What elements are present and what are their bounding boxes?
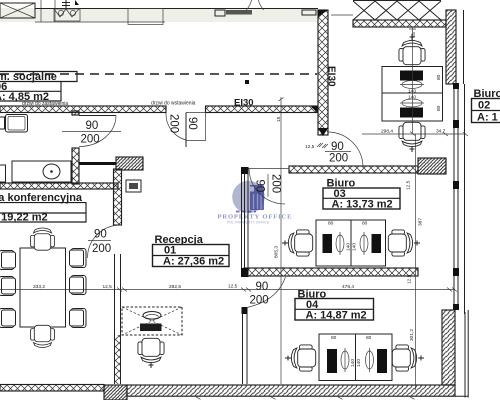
svg-text:EI30: EI30: [234, 98, 254, 109]
svg-text:80: 80: [436, 105, 442, 111]
svg-text:301,2: 301,2: [409, 329, 415, 341]
svg-text:298,4: 298,4: [381, 129, 393, 135]
svg-text:140: 140: [352, 243, 358, 251]
svg-text:200: 200: [168, 114, 180, 133]
svg-text:A: 14,87 m2: A: 14,87 m2: [306, 310, 367, 322]
svg-text:12,5: 12,5: [406, 180, 412, 190]
svg-text:15: 15: [411, 32, 417, 38]
svg-text:90: 90: [186, 117, 198, 130]
svg-text:12,5: 12,5: [103, 284, 113, 290]
svg-text:140: 140: [356, 359, 362, 367]
svg-text:A: 19,22 m2: A: 19,22 m2: [0, 212, 48, 224]
svg-text:200: 200: [329, 153, 348, 165]
svg-text:805,3: 805,3: [274, 246, 280, 258]
svg-text:12,5: 12,5: [407, 274, 413, 284]
svg-text:333,2: 333,2: [33, 284, 45, 290]
svg-text:80: 80: [331, 335, 337, 341]
svg-text:200: 200: [250, 295, 269, 307]
svg-text:m. socjalne: m. socjalne: [0, 71, 57, 83]
svg-text:387: 387: [418, 218, 424, 226]
svg-text:80: 80: [362, 221, 368, 227]
svg-text:90: 90: [86, 120, 99, 132]
svg-text:200: 200: [270, 174, 282, 193]
svg-text:200: 200: [81, 134, 100, 146]
svg-text:80: 80: [436, 74, 442, 80]
svg-text:EI30: EI30: [326, 66, 337, 87]
svg-text:A: 13,73 m2: A: 13,73 m2: [332, 199, 393, 211]
svg-text:90: 90: [254, 180, 266, 193]
svg-text:80: 80: [328, 221, 334, 227]
svg-text:12,5: 12,5: [305, 144, 315, 150]
svg-text:drzwi do wstawienia: drzwi do wstawienia: [151, 101, 196, 107]
svg-text:200: 200: [92, 243, 111, 255]
svg-text:A: 1: A: 1: [477, 112, 498, 124]
svg-text:02: 02: [478, 100, 490, 112]
svg-text:drzwi do zastawienia: drzwi do zastawienia: [22, 101, 68, 107]
svg-text:90: 90: [94, 229, 107, 241]
svg-text:80: 80: [366, 335, 372, 341]
svg-text:15: 15: [276, 116, 282, 122]
svg-text:478,4: 478,4: [342, 284, 354, 290]
svg-text:34,7: 34,7: [436, 129, 446, 135]
svg-text:140: 140: [346, 243, 352, 251]
svg-text:90: 90: [256, 281, 269, 293]
svg-text:A: 27,36 m2: A: 27,36 m2: [163, 256, 224, 268]
svg-text:12,5: 12,5: [228, 284, 238, 290]
svg-text:282,5: 282,5: [169, 284, 181, 290]
svg-text:140: 140: [350, 359, 356, 367]
